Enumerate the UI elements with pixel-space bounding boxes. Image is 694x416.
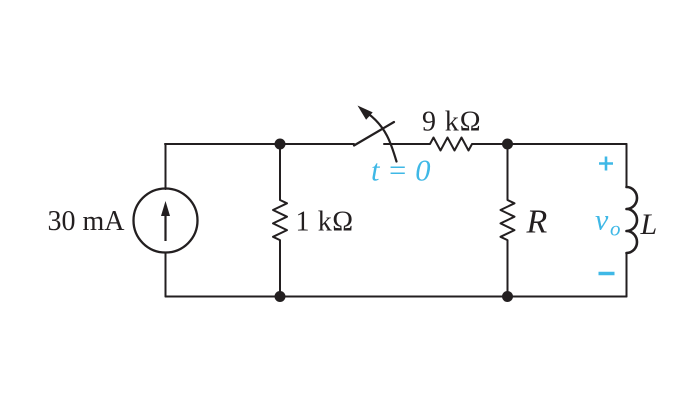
svg-text:30 mA: 30 mA <box>48 206 126 237</box>
svg-text:o: o <box>610 217 621 241</box>
svg-text:9 kΩ: 9 kΩ <box>422 107 481 138</box>
svg-text:t = 0: t = 0 <box>371 154 431 188</box>
svg-text:R: R <box>526 204 548 241</box>
svg-text:v: v <box>595 204 609 237</box>
svg-text:L: L <box>640 208 658 241</box>
svg-text:1 kΩ: 1 kΩ <box>296 207 354 238</box>
